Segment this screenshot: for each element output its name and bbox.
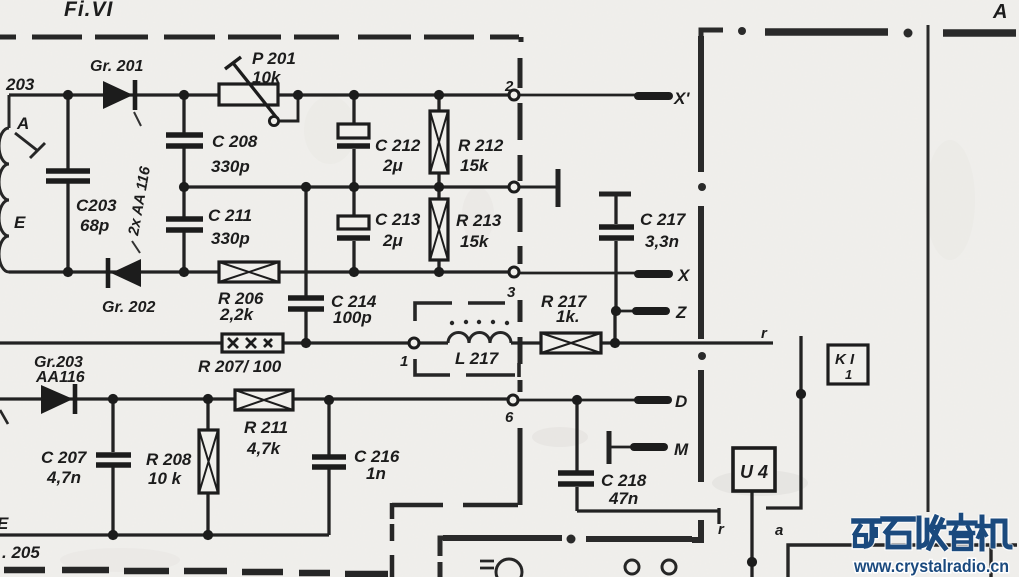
capacitor C218 [558,473,594,484]
node W5-C207 [108,394,118,404]
svg-text:K I: K I [835,351,855,368]
wire C214 column x=306 [304,187,307,343]
capacitor C211 [166,219,203,230]
node Z-C217 [611,306,621,316]
node W1-wiper [293,90,303,100]
wire W5 y=399 [0,397,510,400]
svg-text:6: 6 [505,409,514,426]
svg-text:X: X [677,266,691,285]
svg-text:L 217: L 217 [455,349,500,368]
svg-text:Gr. 202: Gr. 202 [102,299,155,316]
node W2-C212 [349,182,359,192]
wire W5 extension to D [519,399,636,402]
M stub bar [607,431,612,464]
coil L203 left edge [0,95,9,272]
svg-text:2μ: 2μ [382,156,403,175]
dash-dot boundary top-right horizontal [738,27,1016,38]
wire a branch below U4 [750,491,753,577]
resistor R206 [219,262,279,282]
svg-text:R 211: R 211 [244,418,288,437]
svg-text:100p: 100p [333,308,372,327]
svg-text:C 217: C 217 [640,210,687,229]
svg-text:U 4: U 4 [740,462,768,482]
svg-text:R 207/ 100: R 207/ 100 [198,357,282,376]
resistor R207 special [222,334,283,352]
resistor R213 [430,199,448,260]
dash-dot boundary bottom-right y=539 [440,535,692,577]
node W1-C203 [63,90,73,100]
capacitor C207 [96,455,131,465]
node W2-R212 [434,182,444,192]
svg-text:330p: 330p [211,229,250,248]
wire C203 column x=68 [66,95,69,272]
svg-text:E: E [0,514,9,533]
svg-text:www.crystalradio.cn: www.crystalradio.cn [853,556,1009,576]
arrow M [634,443,664,451]
socket circle left [625,560,639,574]
node W4-C214 [301,338,311,348]
svg-text:4,7k: 4,7k [246,439,282,458]
wire C218 return to r [577,508,719,524]
dashed boundary bottom-left edge y=571 [4,570,388,574]
diode Gr.202 [108,241,141,288]
wire W3 extension to X [519,272,636,275]
svg-text:15k: 15k [460,232,490,251]
node W3-R213 [434,267,444,277]
capacitor C212 electrolytic [337,124,370,146]
wire R212/R213 column x=439 [437,95,440,272]
pin mid [509,182,519,192]
svg-text:C 211: C 211 [208,206,252,225]
wire W2 y=187 [184,185,510,188]
svg-text:47n: 47n [608,489,638,508]
svg-text:C 212: C 212 [375,136,421,155]
node W5-C218 [572,395,582,405]
socket circle right [662,560,676,574]
wire W4 r-line y=343 [0,341,773,344]
diode Gr.201 [103,80,141,126]
coil L203 tap arrow [15,133,45,158]
capacitor C208 [166,135,203,146]
C217 top stub bar [599,192,631,197]
node W3-C213 [349,267,359,277]
svg-text:M: M [674,440,689,459]
dash-dot boundary top-right corner [701,30,723,36]
node W2-C208 [179,182,189,192]
svg-text:C203: C203 [76,196,117,215]
open stub bar on W2 [556,169,561,207]
inductor L217 [448,333,511,344]
capacitor C214 [288,298,324,309]
svg-text:2,2k: 2,2k [219,305,255,324]
pin 1 [409,338,419,348]
wire C217 column x=616 [614,196,617,311]
node W5-R208 [203,394,213,404]
svg-text:10 k: 10 k [148,469,183,488]
vertical bus line right [927,25,930,512]
wire W1 extension to X' [520,94,637,97]
svg-text:Fi.VI: Fi.VI [64,0,114,21]
wire W3 y=272 [9,270,510,273]
wire Z to r link [613,311,616,343]
svg-text:1k.: 1k. [556,307,580,326]
pin 3 [509,267,519,277]
resistor R212 [430,111,448,173]
box U4 [733,448,775,491]
capacitor C213 electrolytic [337,216,370,238]
dashed boundary bottom step y=505 [392,503,518,519]
svg-text:68p: 68p [80,216,109,235]
dashed boundary top edge Fi.VI block [0,35,519,40]
inductor L217 core dots [450,320,509,325]
next stage box bottom right [788,545,1017,577]
node W1-R212 [434,90,444,100]
wire C207 column x=113 [111,399,114,535]
svg-text:330p: 330p [211,157,250,176]
svg-text:. 205: . 205 [2,543,40,562]
node W5-C216 [324,395,334,405]
svg-text:203: 203 [5,75,35,94]
svg-text:2: 2 [504,78,514,95]
pin 6 [508,395,518,405]
svg-text:15k: 15k [460,156,490,175]
dashed boundary right edge at x=520 [520,37,521,505]
node W2-C214 [301,182,311,192]
svg-text:A: A [992,1,1007,23]
wire W6 bottom return y=535 [0,533,329,536]
node W1-C212 [349,90,359,100]
diode Gr.203 [41,384,75,414]
node W3-C211 [179,267,189,277]
arrow X' [638,92,669,100]
node W6-C207 [108,530,118,540]
tube grid marks [480,561,494,568]
svg-text:Z: Z [675,303,687,322]
svg-text:10k: 10k [252,68,282,87]
svg-text:4,7n: 4,7n [46,468,81,487]
capacitor C203 [46,171,90,181]
svg-text:C 208: C 208 [212,132,258,151]
svg-text:R 208: R 208 [146,450,192,469]
wire Z stub [616,310,633,313]
svg-text:3: 3 [507,284,516,301]
svg-text:Gr. 201: Gr. 201 [90,58,143,75]
node W6-R208 [203,530,213,540]
arrow X [638,270,669,278]
svg-text:D: D [675,392,687,411]
node KI line [796,389,806,399]
shield box dashes around L217 [415,303,519,377]
resistor R208 [199,430,218,493]
capacitor C217 [599,227,634,238]
dash-dot boundary vertical x=701 [692,36,706,540]
svg-text:P 201: P 201 [252,49,296,68]
capacitor C216 [312,457,346,467]
svg-text:C 218: C 218 [601,471,647,490]
wire P201 wiper link [279,95,298,121]
svg-text:3,3n: 3,3n [645,232,679,251]
wire W1 top AGC line y=95 [9,93,514,96]
svg-text:R 212: R 212 [458,136,504,155]
watermark logo 矿石收音机 [854,515,1010,549]
svg-text:1: 1 [400,353,408,370]
wire W2 stub to bar [519,186,556,189]
svg-text:1: 1 [845,367,852,382]
wire C212/C213 column x=354 [352,95,355,272]
relay box KI [828,345,868,384]
svg-text:R 213: R 213 [456,211,502,230]
node a line [747,557,757,567]
wire R208 column x=208 [206,399,209,535]
resistor R217 [541,333,601,353]
arrow D [638,396,668,404]
resistor R211 [235,390,293,410]
svg-text:X': X' [673,89,690,108]
node W1-C208 [179,90,189,100]
wire C208/C211 column x=184 [182,95,185,272]
stray mark left edge [0,410,8,424]
wire C216 column x=329 [327,400,330,535]
wire KI branch [766,336,801,508]
svg-text:1n: 1n [366,464,386,483]
wire C218 column x=577 [575,400,578,511]
svg-text:a: a [775,522,783,539]
wire M stub [611,446,632,449]
node W3-C203 [63,267,73,277]
arrow Z [636,307,666,315]
svg-text:A: A [16,114,29,133]
svg-text:E: E [14,213,26,232]
svg-text:C 213: C 213 [375,210,421,229]
node W4-R217 [610,338,620,348]
svg-text:C 207: C 207 [41,448,88,467]
tube envelope bottom center [496,559,522,577]
pin 2 [509,90,519,100]
svg-text:AA116: AA116 [35,369,85,386]
dashed boundary left step x=392 [390,524,395,577]
potentiometer P201 [219,57,279,126]
svg-text:2μ: 2μ [382,231,403,250]
